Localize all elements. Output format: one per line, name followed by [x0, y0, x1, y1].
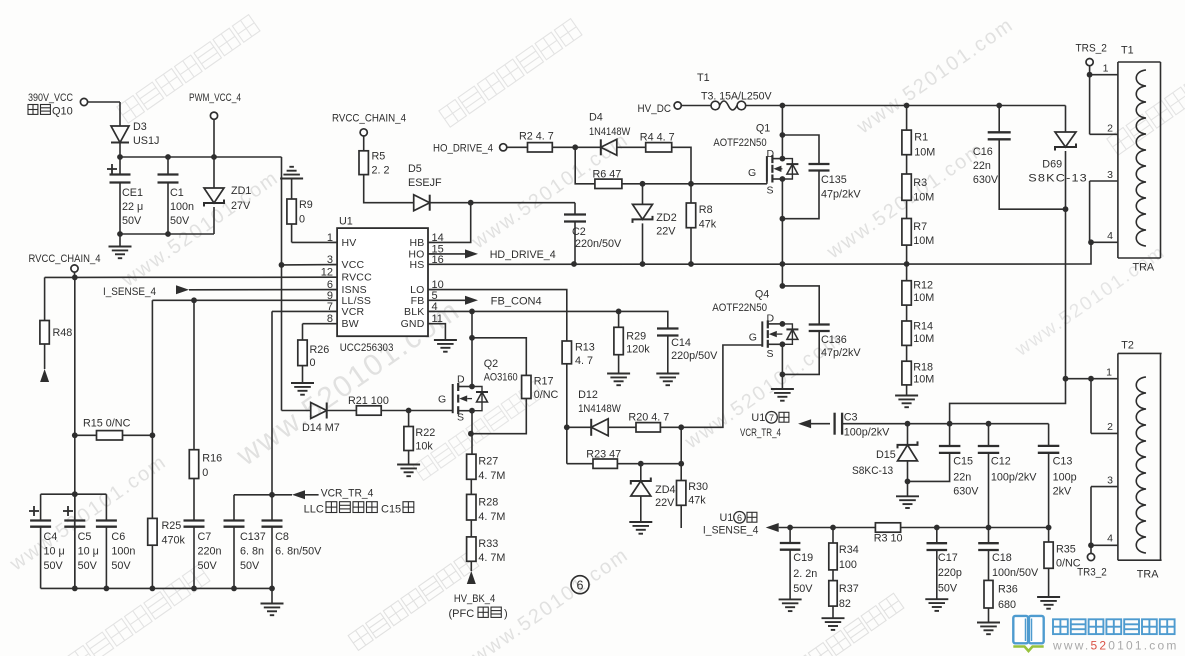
- svg-text:10M: 10M: [913, 292, 934, 304]
- ground below C8 rail: [261, 588, 284, 615]
- svg-text:7: 7: [769, 413, 774, 423]
- svg-text:390V_VCC: 390V_VCC: [28, 92, 73, 104]
- svg-text:HV_DC: HV_DC: [638, 103, 672, 115]
- wire pin 8 BW: [303, 324, 338, 340]
- svg-text:S: S: [457, 412, 464, 424]
- svg-text:VCR: VCR: [342, 306, 365, 318]
- junction dots R23 row: [638, 461, 684, 467]
- svg-text:G: G: [748, 167, 756, 179]
- svg-text:Q1: Q1: [756, 123, 770, 135]
- svg-text:C17: C17: [938, 552, 958, 564]
- wire R17 bottom: [471, 399, 526, 434]
- ground below R26: [291, 366, 314, 395]
- ground below Q4: [771, 389, 794, 401]
- resistor R16 0: [189, 300, 222, 479]
- svg-text:I_SENSE_4: I_SENSE_4: [103, 286, 156, 298]
- transistor Q4 AOTF22N50: [712, 289, 798, 361]
- junction dot HB node: [468, 200, 474, 206]
- capacitor C18 100n/50V: [978, 528, 1039, 581]
- svg-text:R16: R16: [202, 453, 222, 465]
- svg-text:R5: R5: [372, 151, 386, 163]
- resistor R33 4.7M: [467, 537, 506, 564]
- wire HB riser: [428, 203, 471, 243]
- wire VCC rail top: [120, 156, 282, 158]
- svg-text:2: 2: [1107, 123, 1113, 135]
- wire Q1 drain column: [781, 106, 783, 159]
- svg-text:AOTF22N50: AOTF22N50: [712, 302, 767, 314]
- resistor R13 4.7: [562, 341, 595, 367]
- svg-text:S8KC-13: S8KC-13: [852, 465, 893, 477]
- svg-text:ZD4: ZD4: [655, 484, 675, 496]
- wire Q1 source to rail: [781, 179, 783, 286]
- svg-text:C19: C19: [793, 552, 813, 564]
- svg-text:R17: R17: [534, 376, 554, 388]
- resistor R20 4.7: [628, 412, 669, 433]
- capacitor C137 6.8n/50V: [224, 495, 266, 589]
- svg-text:BW: BW: [342, 318, 359, 330]
- svg-text:Q4: Q4: [755, 289, 769, 301]
- diode D4 1N4148W: [589, 112, 631, 156]
- svg-text:D: D: [767, 313, 775, 325]
- wire pin 7 VCR row: [272, 311, 337, 494]
- svg-text:R18: R18: [913, 362, 933, 374]
- ground below D15: [896, 496, 919, 508]
- svg-text:47k: 47k: [688, 495, 706, 507]
- junction dots I_SENSE rail right: [934, 525, 1052, 531]
- wire pin12 RVCC: [75, 276, 337, 278]
- arrow up HV_BK_4: [449, 571, 508, 620]
- svg-text:D: D: [767, 148, 775, 160]
- svg-text:R7: R7: [913, 221, 927, 233]
- svg-text:US1J: US1J: [133, 135, 159, 147]
- wire D12 to R20: [608, 426, 636, 428]
- svg-text:4. 7M: 4. 7M: [478, 511, 505, 523]
- svg-text:HV_BK_4: HV_BK_4: [454, 593, 495, 605]
- capacitor C19 2.2n/50V: [780, 528, 818, 600]
- svg-text:82: 82: [839, 598, 851, 610]
- svg-text:I_SENSE_4: I_SENSE_4: [703, 525, 759, 537]
- svg-text:R27: R27: [478, 456, 498, 468]
- wire RVCC column down: [74, 277, 76, 588]
- junction dots R15 row: [72, 432, 155, 438]
- svg-text:TRA: TRA: [1133, 262, 1155, 274]
- svg-text:R29: R29: [626, 331, 646, 343]
- svg-text:): ): [504, 608, 508, 620]
- wire Q1 gate stub: [766, 182, 768, 184]
- svg-text:R21 100: R21 100: [348, 395, 389, 407]
- transistor Q2 AO3160: [438, 358, 518, 424]
- svg-text:470k: 470k: [162, 535, 186, 547]
- svg-text:R25: R25: [162, 520, 182, 532]
- svg-text:0: 0: [299, 214, 305, 226]
- wire R17 branch: [472, 338, 526, 376]
- svg-text:R9: R9: [299, 199, 313, 211]
- resistor R25 470k: [148, 435, 186, 588]
- diode D3 US1J: [111, 121, 159, 147]
- svg-text:RVCC_CHAIN_4: RVCC_CHAIN_4: [29, 253, 101, 265]
- svg-text:C8: C8: [275, 531, 289, 543]
- svg-text:100p: 100p: [1053, 472, 1077, 484]
- svg-text:4: 4: [1107, 230, 1113, 242]
- svg-text:T3. 15A/L250V: T3. 15A/L250V: [701, 90, 772, 102]
- wire R20 to R23 column: [680, 427, 682, 463]
- svg-text:HD_DRIVE_4: HD_DRIVE_4: [490, 249, 556, 261]
- logo site name: [1053, 619, 1175, 634]
- svg-text:R13: R13: [575, 342, 595, 354]
- capacitor C14 220p/50V: [657, 329, 718, 374]
- capacitor C1 100n/50V: [158, 157, 195, 234]
- svg-text:4. 7M: 4. 7M: [478, 552, 505, 564]
- ground above R9: [280, 167, 303, 199]
- svg-text:C1: C1: [170, 187, 184, 199]
- svg-text:220n: 220n: [198, 546, 222, 558]
- svg-text:T1: T1: [697, 72, 710, 84]
- svg-text:1: 1: [1106, 367, 1112, 379]
- resistor R26 0: [298, 340, 330, 369]
- svg-text:100n: 100n: [111, 546, 135, 558]
- wire R23 row: [567, 463, 593, 465]
- svg-text:UCC256303: UCC256303: [340, 342, 394, 354]
- svg-text:C13: C13: [1053, 456, 1073, 468]
- svg-text:C5: C5: [78, 531, 92, 543]
- capacitor C17 220p/50V: [927, 528, 962, 600]
- resistor R8 47k: [686, 184, 717, 264]
- junction dots bottom rail: [72, 586, 275, 592]
- svg-text:S: S: [767, 185, 774, 197]
- junction dots gate row: [640, 181, 694, 187]
- svg-text:120k: 120k: [626, 344, 650, 356]
- svg-text:VCR_TR_4: VCR_TR_4: [740, 427, 781, 439]
- svg-text:R33: R33: [478, 538, 498, 550]
- resistor R12 10M: [902, 264, 934, 305]
- svg-text:R2 4. 7: R2 4. 7: [519, 131, 554, 143]
- capacitor C12 100p/2kV: [978, 424, 1038, 528]
- svg-text:C137: C137: [240, 531, 266, 543]
- svg-text:VCC: VCC: [342, 259, 365, 271]
- svg-text:47p/2kV: 47p/2kV: [821, 347, 861, 359]
- svg-text:RVCC: RVCC: [342, 272, 373, 284]
- svg-text:220n/50V: 220n/50V: [575, 238, 622, 250]
- junction dot C5 top: [72, 491, 78, 497]
- svg-text:1N4148W: 1N4148W: [589, 126, 631, 138]
- svg-text:10 μ: 10 μ: [44, 546, 65, 558]
- ground below CE1: [109, 234, 132, 258]
- svg-text:100p/2kV: 100p/2kV: [991, 472, 1037, 484]
- resistor R35 0/NC: [1044, 528, 1081, 598]
- circled 6 sheet marker: [571, 576, 589, 594]
- svg-text:100: 100: [839, 559, 857, 571]
- svg-text:1: 1: [1103, 63, 1109, 75]
- resistor R18 10M: [902, 345, 934, 385]
- svg-text:HB: HB: [410, 237, 425, 249]
- wire 390V_VCC to D3: [119, 102, 121, 126]
- svg-text:C3: C3: [844, 412, 858, 424]
- svg-text:47k: 47k: [699, 219, 717, 231]
- zener ZD4 22V: [631, 464, 676, 522]
- svg-text:S8KC-13: S8KC-13: [1028, 173, 1088, 185]
- ground below R29: [607, 355, 630, 386]
- svg-text:FB_CON4: FB_CON4: [491, 296, 542, 308]
- svg-text:10M: 10M: [914, 147, 935, 159]
- wire Q2 source down: [471, 411, 473, 455]
- svg-text:LLC: LLC: [304, 504, 324, 516]
- svg-text:10M: 10M: [913, 333, 934, 345]
- capacitor C2 220n/50V: [564, 203, 622, 264]
- junction dot Q2 source: [468, 431, 474, 437]
- junction dots Q1 source node: [780, 216, 786, 267]
- junction dot C136 top: [780, 283, 786, 289]
- svg-text:6: 6: [577, 578, 584, 592]
- svg-text:D4: D4: [589, 112, 603, 124]
- junction dot R21-R22: [406, 408, 412, 414]
- arrow up below R48: [40, 369, 49, 382]
- junction dot Q4 source gnd: [780, 372, 786, 378]
- junction dot RVCC: [72, 275, 78, 281]
- capacitor C4 10u/50V: [29, 494, 65, 588]
- resistor R3 10M: [902, 155, 934, 204]
- svg-text:6. 8n: 6. 8n: [240, 546, 264, 558]
- svg-text:50V: 50V: [938, 583, 958, 595]
- resistor R15 0/NC: [75, 418, 153, 441]
- junction dot VCC pin3: [279, 262, 285, 268]
- wire R4 to gate row: [672, 147, 691, 184]
- junction dots C3 node: [905, 421, 992, 427]
- svg-text:R28: R28: [478, 497, 498, 509]
- svg-text:2: 2: [1107, 421, 1113, 433]
- svg-text:R30: R30: [688, 481, 708, 493]
- svg-text:R4 4. 7: R4 4. 7: [640, 132, 675, 144]
- svg-text:ZD1: ZD1: [231, 185, 251, 197]
- svg-text:0: 0: [310, 357, 316, 369]
- svg-text:R6 47: R6 47: [593, 168, 622, 180]
- svg-text:50V: 50V: [793, 583, 813, 595]
- svg-text:GND: GND: [401, 318, 425, 330]
- net HD_DRIVE_4 from pin 15: [428, 249, 556, 261]
- svg-text:630V: 630V: [973, 174, 999, 186]
- ground below C19: [779, 599, 802, 611]
- svg-text:S: S: [767, 348, 774, 360]
- resistor R2 4.7: [519, 131, 554, 153]
- svg-text:R1: R1: [914, 132, 928, 144]
- svg-text:6: 6: [737, 513, 742, 523]
- wire pin 11 GND: [428, 324, 445, 340]
- resistor R17 0/NC: [522, 375, 559, 401]
- svg-text:0/NC: 0/NC: [534, 389, 559, 401]
- svg-text:R36: R36: [998, 584, 1018, 596]
- resistor R37 82: [829, 570, 859, 618]
- resistor R3b 10: [874, 523, 903, 545]
- ground below R37: [822, 618, 845, 630]
- svg-text:TRS_2: TRS_2: [1076, 43, 1107, 55]
- svg-text:PWM_VCC_4: PWM_VCC_4: [189, 92, 241, 104]
- svg-text:T1: T1: [1121, 45, 1134, 57]
- svg-text:D5: D5: [408, 163, 422, 175]
- svg-text:6. 8n/50V: 6. 8n/50V: [275, 546, 322, 558]
- resistor R22 10k: [404, 411, 435, 453]
- wire HS rail pin 16: [428, 242, 1091, 264]
- wire HV rail: [746, 105, 1066, 107]
- svg-text:R12: R12: [913, 280, 933, 292]
- svg-text:U1: U1: [720, 512, 734, 524]
- junction dots BLK rail: [469, 309, 621, 315]
- net HO_DRIVE_4 terminal: [433, 143, 528, 155]
- svg-text:ZD2: ZD2: [656, 212, 676, 224]
- wire R23 to R30 node: [617, 463, 681, 465]
- svg-text:TR3_2: TR3_2: [1077, 567, 1107, 579]
- wire C4/C5/C6 top rail: [41, 493, 107, 495]
- resistor R36 680: [984, 580, 1018, 622]
- svg-text:D12: D12: [578, 389, 598, 401]
- svg-text:10M: 10M: [913, 192, 934, 204]
- svg-text:www.520101.com: www.520101.com: [1052, 639, 1179, 653]
- node RVCC_CHAIN_4 top: [332, 113, 406, 151]
- ground below C17: [925, 599, 948, 611]
- net HV_DC terminal: [638, 102, 712, 115]
- wire pin 9 LL/SS row: [152, 300, 337, 435]
- net label U1 pin6 I_SENSE_4: [703, 512, 759, 537]
- ground below R22: [397, 451, 420, 477]
- junction dots HS rail: [571, 261, 909, 267]
- svg-text:22n: 22n: [973, 160, 991, 172]
- wire R27-R28: [470, 479, 472, 494]
- svg-text:D3: D3: [133, 121, 147, 133]
- svg-text:3: 3: [1107, 475, 1113, 487]
- svg-text:50V: 50V: [78, 560, 98, 572]
- svg-text:Q2: Q2: [484, 358, 498, 370]
- svg-text:100p/2kV: 100p/2kV: [844, 427, 890, 439]
- resistor R48: [40, 277, 75, 369]
- svg-text:630V: 630V: [953, 486, 979, 498]
- wire R33 to arrow: [470, 561, 472, 571]
- svg-text:R37: R37: [839, 583, 859, 595]
- svg-text:HV: HV: [342, 237, 357, 249]
- ground pin 11: [434, 340, 457, 352]
- svg-text:2kV: 2kV: [1053, 486, 1072, 498]
- svg-text:R48: R48: [53, 327, 73, 339]
- svg-text:D69: D69: [1042, 159, 1062, 171]
- svg-text:50V: 50V: [122, 215, 142, 227]
- svg-text:22V: 22V: [656, 226, 676, 238]
- resistor R1 10M: [902, 106, 935, 159]
- svg-text:G: G: [438, 394, 446, 406]
- logo book icon: [1013, 616, 1043, 651]
- junction dot R17 branch: [469, 335, 475, 341]
- svg-text:220p/50V: 220p/50V: [671, 350, 718, 362]
- resistor R4 4.7: [640, 132, 675, 152]
- svg-text:1N4148W: 1N4148W: [578, 403, 621, 415]
- junction dot R20-R30: [678, 424, 684, 430]
- svg-text:C136: C136: [821, 334, 847, 346]
- svg-text:0: 0: [202, 467, 208, 479]
- svg-text:680: 680: [998, 599, 1016, 611]
- junction dot LLSS-R16: [191, 297, 197, 303]
- capacitor C136 47p/2kV: [782, 286, 861, 375]
- svg-text:HS: HS: [410, 259, 425, 271]
- svg-text:R3: R3: [913, 177, 927, 189]
- zener ZD1 27V: [204, 157, 251, 234]
- capacitor C13 100p/2kV: [1038, 424, 1077, 528]
- svg-text:D15: D15: [876, 449, 896, 461]
- capacitor C15 22n/630V: [908, 424, 980, 498]
- diode D5 ESEJF: [408, 163, 442, 211]
- wire R13 down: [566, 364, 568, 464]
- svg-text:R15 0/NC: R15 0/NC: [83, 418, 131, 430]
- wire R20 to Q4 gate: [660, 345, 762, 427]
- svg-text:R26: R26: [310, 344, 330, 356]
- resistor R27 4.7M: [467, 454, 506, 482]
- svg-text:AOTF22N50: AOTF22N50: [713, 137, 766, 149]
- junction dot VCR node: [269, 492, 275, 498]
- svg-text:C14: C14: [671, 337, 691, 349]
- wire D69 node down to T2: [1065, 209, 1067, 379]
- svg-text:D14 M7: D14 M7: [302, 422, 340, 434]
- capacitor CE1 22u/50V: [107, 157, 143, 234]
- svg-text:ESEJF: ESEJF: [408, 177, 442, 189]
- resistor R29 120k: [614, 311, 650, 355]
- resistor R5 2.2: [359, 151, 390, 177]
- junction dot C135 top: [780, 132, 786, 138]
- svg-text:4: 4: [1107, 533, 1113, 545]
- svg-text:RVCC_CHAIN_4: RVCC_CHAIN_4: [332, 113, 406, 125]
- wire R28-R33: [470, 520, 472, 537]
- arrow VCR_TR left: [798, 419, 830, 428]
- capacitor C135 47p/2kV: [782, 135, 861, 219]
- svg-text:AO3160: AO3160: [484, 372, 518, 384]
- capacitor C3 100p/2kV: [835, 412, 891, 439]
- net FB_CON4 from pin 5: [428, 296, 542, 308]
- resistor R34 100: [829, 528, 859, 572]
- wire BLK to R17/Q2 column: [471, 311, 473, 386]
- wire D4 to R4: [617, 146, 646, 148]
- svg-text:C7: C7: [198, 531, 212, 543]
- svg-text:C15: C15: [381, 504, 401, 516]
- svg-text:22V: 22V: [655, 497, 675, 509]
- capacitor C7 220n/50V: [184, 479, 222, 589]
- wire C3 node rail: [846, 423, 1049, 425]
- ground below R35: [1037, 597, 1060, 609]
- wire C15 branch up to T2 node: [950, 379, 1066, 424]
- svg-text:100n/50V: 100n/50V: [992, 567, 1039, 579]
- capacitor C5 10u/50V: [63, 494, 99, 588]
- svg-text:2. 2: 2. 2: [372, 165, 390, 177]
- wire CE1/C1/ZD1 bottom: [120, 233, 214, 235]
- svg-text:4. 7M: 4. 7M: [478, 470, 505, 482]
- resistor R9 0: [287, 199, 313, 226]
- wire VCC column: [281, 157, 283, 411]
- svg-text:C15: C15: [953, 456, 973, 468]
- wire D3 to VCC rail: [119, 143, 121, 158]
- svg-text:4. 7: 4. 7: [575, 355, 593, 367]
- svg-text:U1: U1: [751, 412, 765, 424]
- wire I_SENSE rail right: [901, 527, 1049, 529]
- net label U1 pin7 VCR_TR_4: [740, 412, 789, 440]
- ground below R18: [895, 385, 918, 407]
- svg-text:Q10: Q10: [52, 106, 73, 118]
- svg-text:50V: 50V: [170, 215, 190, 227]
- svg-text:220p: 220p: [938, 567, 962, 579]
- svg-text:G: G: [749, 331, 757, 343]
- junction dot D15 bottom: [905, 479, 911, 485]
- svg-text:C135: C135: [821, 174, 847, 186]
- arrow I_SENSE left: [766, 523, 876, 532]
- junction dot D69 bottom: [1063, 206, 1069, 212]
- svg-text:50V: 50V: [198, 560, 218, 572]
- svg-text:R14: R14: [913, 321, 933, 333]
- svg-text:VCR_TR_4: VCR_TR_4: [321, 487, 374, 499]
- diode D69 S8KC-13: [1028, 106, 1088, 210]
- svg-text:D: D: [457, 374, 465, 386]
- svg-text:R23 47: R23 47: [586, 449, 621, 461]
